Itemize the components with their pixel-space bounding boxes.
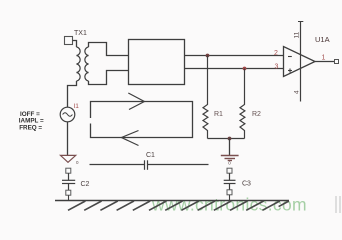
capacitor C2 bottom pin square	[66, 190, 71, 195]
block (filter box)	[129, 40, 185, 85]
op-amp output wire	[315, 61, 334, 63]
svg-text:C2: C2	[81, 181, 90, 188]
chassis hatch marks	[68, 201, 289, 210]
svg-text:1: 1	[322, 55, 326, 62]
wire: primary bottom to current source I1	[68, 81, 77, 107]
svg-text:3: 3	[275, 64, 279, 71]
svg-text:2: 2	[274, 50, 278, 57]
svg-text:C1: C1	[146, 152, 155, 159]
ground triangle (0) below I1	[61, 155, 76, 162]
op-amp minus input mark	[288, 56, 292, 58]
current direction arrow (bottom, left)	[122, 131, 139, 146]
wire: junction down to ground	[229, 139, 231, 156]
capacitor C3 top pin square	[227, 168, 232, 173]
wire: block to op-amp pin 2	[185, 55, 284, 57]
wire: C3 to chassis	[229, 195, 231, 201]
output pin square	[335, 60, 339, 64]
transformer TX1 secondary winding	[85, 47, 89, 81]
resistor R2	[240, 69, 245, 139]
chassis ground line	[55, 200, 289, 202]
resistor R1	[203, 56, 208, 139]
svg-text:R2: R2	[252, 111, 261, 118]
junction node on pin2 wire	[206, 54, 210, 58]
svg-text:R1: R1	[214, 111, 223, 118]
svg-text:4: 4	[294, 90, 301, 94]
op-amp power rail vertical	[300, 22, 302, 102]
junction node on pin3 wire	[243, 67, 247, 71]
svg-text:11: 11	[294, 31, 301, 38]
junction node at R bottoms	[228, 137, 232, 141]
transformer TX1 primary winding	[77, 47, 81, 81]
op-amp plus input mark	[288, 69, 292, 73]
svg-text:U1A: U1A	[315, 35, 330, 44]
source parameter labels	[19, 111, 44, 131]
power rail top tick	[298, 21, 303, 23]
wire joining R1,R2 bottoms	[208, 138, 245, 140]
wire: secondary bottom to block lower-left	[89, 71, 129, 85]
wire: I1 to ground triangle	[67, 122, 69, 156]
right edge faint marks	[336, 196, 340, 213]
svg-text:C3: C3	[242, 180, 251, 187]
svg-text:I1: I1	[74, 103, 80, 110]
svg-text:TX1: TX1	[74, 30, 87, 37]
TX1 top-left pin square	[65, 37, 73, 45]
wire: pin square to primary top	[73, 41, 77, 48]
current source I1	[60, 107, 75, 122]
earth ground symbol (0)	[221, 156, 239, 161]
capacitor C1	[145, 160, 148, 170]
current direction arrow (top, right)	[128, 93, 144, 110]
wire: C1 left segment	[90, 164, 145, 166]
coupled loop rectangle	[91, 102, 193, 138]
wire: C1 right segment	[148, 164, 209, 166]
wire: block to op-amp pin 3	[185, 68, 284, 70]
capacitor C3	[224, 173, 236, 190]
capacitor C3 bottom pin square	[227, 190, 232, 195]
wire: C2 to chassis	[68, 195, 70, 200]
capacitor C2 top pin square	[66, 168, 71, 173]
capacitor C2	[62, 173, 75, 190]
wire: secondary top to block upper-left	[89, 43, 129, 56]
op-amp U1A triangle	[284, 47, 316, 77]
svg-text:FREQ =: FREQ =	[19, 124, 42, 131]
